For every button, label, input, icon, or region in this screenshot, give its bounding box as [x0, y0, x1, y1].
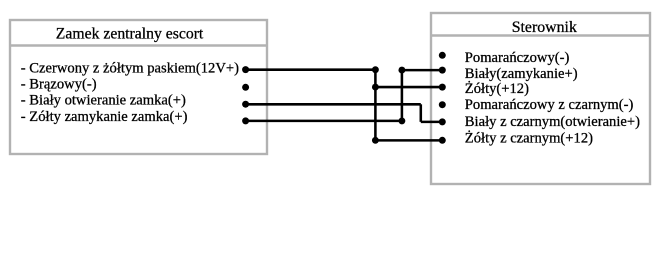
terminal dot: left pin 1 [242, 66, 249, 73]
box: Zamek zentralny escort (left module outline) [10, 20, 267, 154]
svg-text:Żółty(+12): Żółty(+12) [465, 81, 529, 97]
junction: bus2 bottom [398, 117, 405, 124]
box: Sterownik (right module outline) [431, 13, 650, 184]
separator under left title [9, 44, 268, 46]
junction: bus1 mid tap [372, 84, 379, 91]
svg-text:- Biały otwieranie zamka(+): - Biały otwieranie zamka(+) [21, 92, 186, 108]
wire: bus1 bottom to right pin 6 Zolty z czarnym(+12) [375, 139, 442, 142]
junction: bus2 top [398, 67, 405, 74]
terminal dot: right pin 5 [439, 118, 446, 125]
terminal dot: right pin 3 [439, 84, 446, 91]
terminal dot: left pin 4 [242, 117, 249, 124]
terminal dot: right pin 4 [439, 101, 446, 108]
terminal dot: right pin 2 [439, 67, 446, 74]
svg-text:Pomarańczowy(-): Pomarańczowy(-) [465, 50, 570, 66]
wire: left pin1 (12V+) to vertical bus 1 [246, 68, 376, 71]
terminal dot: right pin 1 [439, 52, 446, 59]
wire: vertical bus 2 [401, 70, 404, 121]
svg-text:- Czerwony z żółtym paskiem(12: - Czerwony z żółtym paskiem(12V+) [21, 61, 239, 77]
wire: step down of pin3 wire [420, 104, 423, 122]
svg-text:- Zółty zamykanie zamka(+): - Zółty zamykanie zamka(+) [21, 109, 188, 125]
separator under right title [430, 34, 650, 36]
svg-text:Sterownik: Sterownik [512, 19, 577, 36]
svg-text:Pomarańczowy z czarnym(-): Pomarańczowy z czarnym(-) [465, 97, 634, 113]
terminal dot: left pin 2 [242, 84, 249, 91]
wire: bus2 top to right pin 2 Bialy(zamykanie+) [402, 69, 442, 72]
svg-text:Biały(zamykanie+): Biały(zamykanie+) [465, 66, 578, 82]
wire: left pin4 Zolty zamykanie to bus2 bottom [246, 120, 402, 123]
svg-text:- Brązowy(-): - Brązowy(-) [21, 77, 97, 93]
wire: vertical bus 1 [374, 70, 377, 141]
terminal dot: right pin 6 [439, 137, 446, 144]
wire: bus1 to right pin 3 Zolty(+12) [375, 86, 442, 89]
terminal dot: left pin 3 [242, 101, 249, 108]
svg-text:Zamek zentralny escort: Zamek zentralny escort [56, 25, 204, 42]
svg-text:Żółty z czarnym(+12): Żółty z czarnym(+12) [465, 130, 593, 146]
wire: into right pin 5 Bialy z czarnym(otwieranie+) [421, 121, 443, 124]
junction: bus1 top [372, 66, 379, 73]
svg-text:Biały z czarnym(otwieranie+): Biały z czarnym(otwieranie+) [465, 114, 640, 130]
junction: bus1 bottom corner [372, 137, 379, 144]
wire: left pin3 Bialy otwieranie horizontal run [246, 103, 421, 106]
